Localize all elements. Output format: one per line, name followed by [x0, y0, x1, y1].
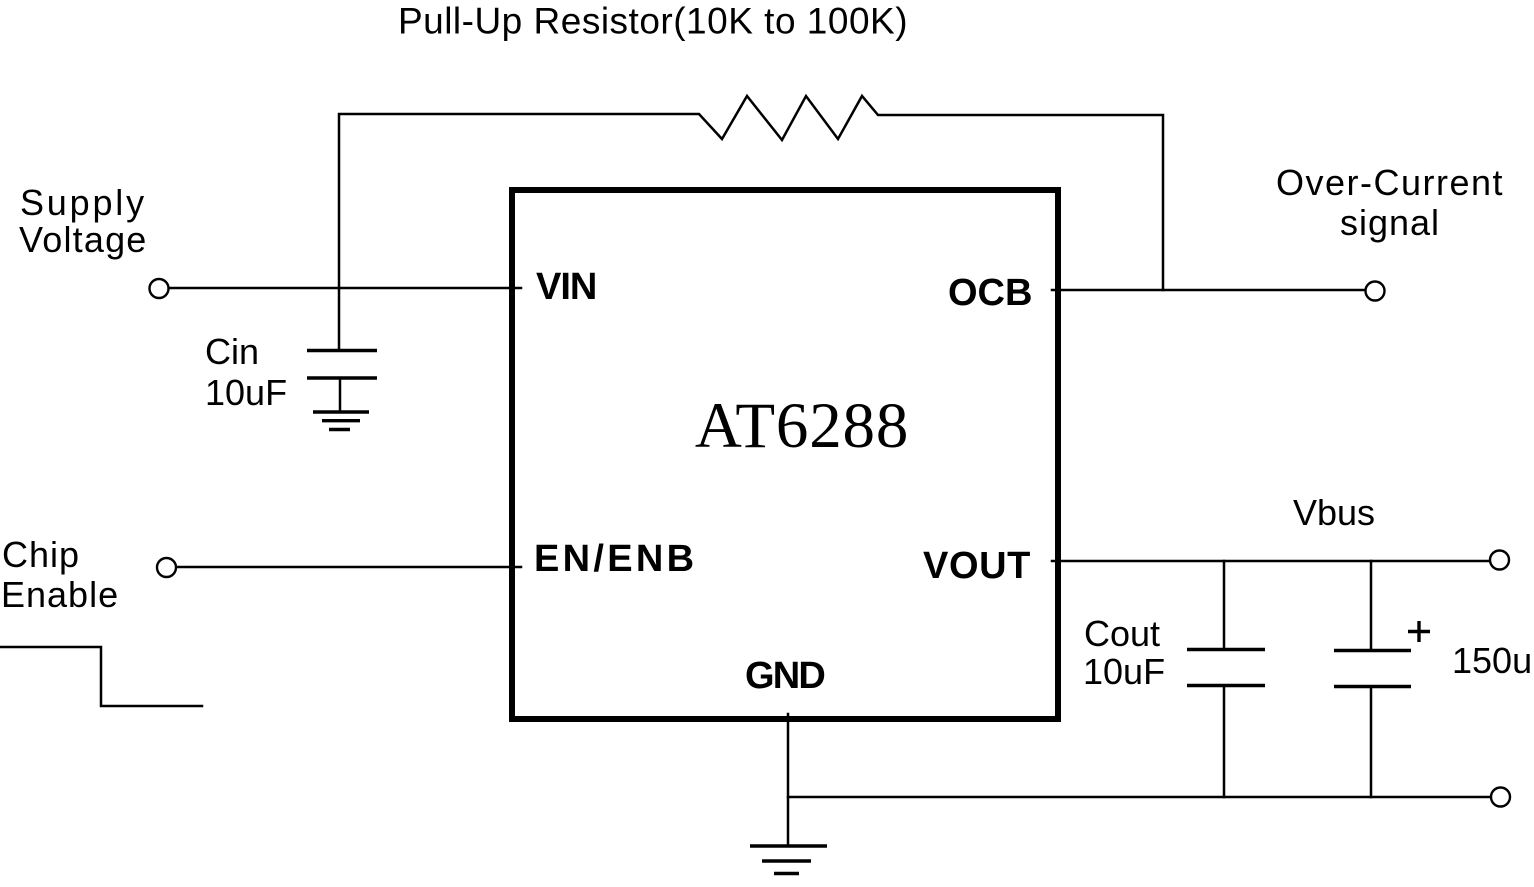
svg-text:Vbus: Vbus [1293, 492, 1375, 533]
svg-text:10uF: 10uF [205, 372, 287, 413]
svg-text:10uF: 10uF [1083, 651, 1165, 692]
svg-text:Over-Current: Over-Current [1276, 162, 1504, 203]
svg-text:EN/ENB: EN/ENB [534, 538, 697, 580]
svg-text:VIN: VIN [536, 266, 596, 308]
svg-text:Enable: Enable [1, 574, 119, 615]
svg-text:OCB: OCB [948, 272, 1032, 314]
svg-text:Cin: Cin [205, 331, 259, 372]
svg-text:Voltage: Voltage [19, 219, 148, 260]
svg-text:signal: signal [1340, 202, 1440, 243]
svg-text:GND: GND [745, 655, 824, 697]
svg-text:150uF: 150uF [1452, 640, 1534, 681]
svg-text:Supply: Supply [20, 182, 147, 223]
svg-text:Cout: Cout [1084, 613, 1160, 654]
svg-text:AT6288: AT6288 [695, 390, 909, 462]
svg-text:Chip: Chip [2, 534, 80, 575]
svg-text:VOUT: VOUT [923, 545, 1031, 587]
svg-text:Pull-Up Resistor(10K to 100K): Pull-Up Resistor(10K to 100K) [398, 1, 908, 42]
